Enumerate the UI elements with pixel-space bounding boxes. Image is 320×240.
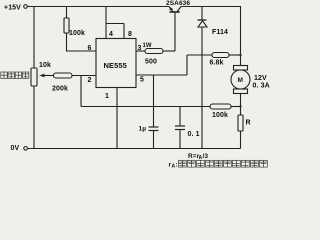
- wire junction drop to control line: [80, 76, 82, 107]
- wire 6.8k to motor node: [229, 54, 241, 56]
- label 速度调整 (CJK glyph blocks): [1, 72, 29, 78]
- svg-text:0V: 0V: [11, 145, 20, 152]
- wire pin1 to ground rail: [116, 88, 118, 149]
- wire pin5 lead: [136, 74, 187, 76]
- wire pin5 drop / 1u branch upper: [153, 75, 155, 127]
- diode D1 F114 top lead: [201, 7, 203, 21]
- wire R to ground rail: [240, 131, 242, 149]
- svg-text:8: 8: [128, 31, 132, 38]
- +15V terminal: [24, 5, 28, 9]
- potentiometer wiper arrow: [41, 75, 54, 77]
- wire top rail right of transistor: [181, 6, 241, 8]
- wire left rail upper: [33, 7, 35, 69]
- resistor 6.8k body: [212, 53, 229, 58]
- junction node 6.8k/motor: [239, 54, 241, 56]
- wire vertical link to pin5 line: [186, 55, 188, 75]
- svg-text:3: 3: [138, 45, 142, 52]
- motor M bottom brush: [234, 89, 248, 94]
- svg-text:2: 2: [88, 77, 92, 84]
- svg-text:+15V: +15V: [4, 5, 21, 12]
- resistor 200k body: [54, 73, 73, 78]
- wire right drop to motor: [240, 7, 242, 66]
- svg-text:500: 500: [145, 59, 157, 66]
- svg-text:10k: 10k: [39, 62, 51, 69]
- resistor 100k body (top left): [64, 18, 69, 33]
- ground rail 0V: [28, 148, 241, 150]
- wire pin8 step: [106, 24, 124, 39]
- svg-text:0. 3A: 0. 3A: [253, 83, 270, 90]
- svg-text:100k: 100k: [69, 30, 85, 37]
- svg-text:6.8k: 6.8k: [210, 60, 224, 67]
- resistor 500 body: [145, 49, 163, 54]
- diode D1 lower lead: [201, 27, 203, 149]
- wire pin3 lead: [136, 50, 145, 52]
- svg-text:12V: 12V: [254, 75, 267, 82]
- IC U1 NE555 timer box: [96, 39, 136, 88]
- wire pin4 to rail: [105, 7, 107, 39]
- transistor Q1 2SA636 base wire: [174, 12, 176, 51]
- wire top rail left of transistor: [28, 6, 170, 8]
- wire 100k upper lead: [66, 7, 68, 19]
- svg-text:1: 1: [105, 93, 109, 100]
- wire 500 to base: [163, 50, 175, 52]
- resistor 100k body (lower): [210, 104, 231, 109]
- svg-text:NE555: NE555: [104, 61, 127, 70]
- svg-text:5: 5: [140, 77, 144, 84]
- junction node 100k/R: [239, 105, 241, 107]
- capacitor C2 0.1 bottom lead: [179, 130, 181, 149]
- svg-text:M: M: [238, 77, 244, 84]
- svg-text:1W: 1W: [143, 43, 152, 49]
- svg-text:R: R: [246, 120, 251, 127]
- svg-text:F114: F114: [212, 29, 228, 36]
- capacitor C2 0.1 top lead: [179, 107, 181, 127]
- motor M body: [231, 70, 250, 89]
- svg-text:4: 4: [109, 31, 113, 38]
- wire 6.8k feed line: [187, 54, 212, 56]
- svg-text:/3: /3: [203, 153, 209, 160]
- capacitor C1 1u bottom lead: [153, 131, 155, 149]
- resistor R body: [238, 115, 243, 131]
- wire left rail lower: [33, 86, 35, 149]
- transistor Q1 2SA636 symbol: [170, 11, 180, 13]
- svg-text:100k: 100k: [212, 112, 228, 119]
- svg-text:6: 6: [88, 45, 92, 52]
- diode D1 F114 symbol: [198, 19, 207, 21]
- wire control line H: [81, 106, 210, 108]
- svg-text:2SA636: 2SA636: [166, 0, 190, 7]
- wire 200k to pin2: [72, 75, 96, 77]
- potentiometer RP 10k body: [31, 68, 37, 86]
- svg-text:0. 1: 0. 1: [188, 131, 200, 138]
- wire motor to R: [240, 94, 242, 116]
- 0V terminal: [24, 147, 28, 151]
- motor M top brush: [234, 66, 248, 71]
- svg-text:200k: 200k: [52, 86, 68, 93]
- svg-text::: :: [176, 162, 178, 169]
- svg-text:1µ: 1µ: [139, 126, 147, 133]
- wire 100k to pin6: [67, 33, 97, 51]
- wire 100k to sense node: [231, 106, 241, 108]
- capacitor C1 1u plates: [149, 126, 159, 128]
- capacitor C2 0.1 plates: [175, 125, 185, 127]
